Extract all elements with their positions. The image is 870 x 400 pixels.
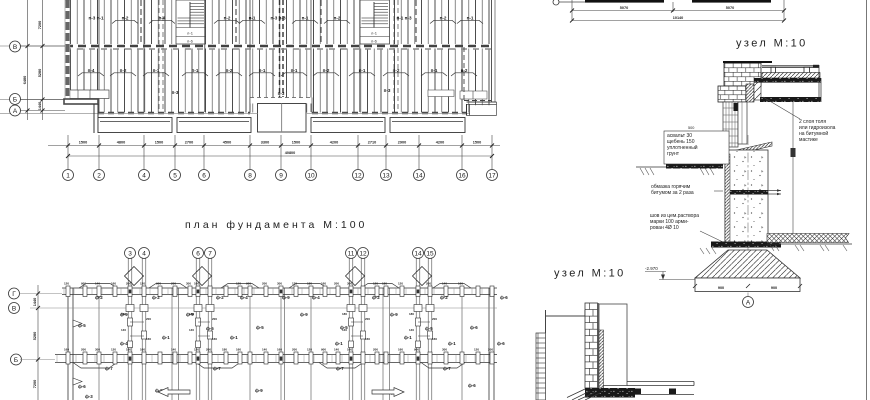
svg-text:п-2: п-2 xyxy=(224,16,231,21)
svg-text:300: 300 xyxy=(277,282,282,286)
svg-text:4200: 4200 xyxy=(330,141,338,145)
tie rod xyxy=(546,315,586,317)
В axis line xyxy=(30,307,497,309)
svg-text:200: 200 xyxy=(292,348,297,352)
svg-text:1500: 1500 xyxy=(79,141,87,145)
svg-text:900: 900 xyxy=(771,286,777,290)
svg-text:ф-6: ф-6 xyxy=(78,384,86,389)
axis vertical lines xyxy=(99,259,462,400)
svg-text:п-1: п-1 xyxy=(153,68,160,73)
svg-text:ф-7: ф-7 xyxy=(105,366,113,371)
svg-text:ф-3: ф-3 xyxy=(85,394,93,399)
bitumen band bottom xyxy=(585,388,635,398)
svg-text:160: 160 xyxy=(365,337,370,341)
svg-text:4200: 4200 xyxy=(436,141,444,145)
svg-text:180: 180 xyxy=(189,312,194,316)
dim line 1 xyxy=(48,145,500,147)
paired axis circles xyxy=(125,248,436,259)
svg-text:900: 900 xyxy=(321,348,326,352)
svg-text:120: 120 xyxy=(307,348,312,352)
bottom joint band xyxy=(711,242,781,248)
svg-text:5070: 5070 xyxy=(726,6,734,10)
svg-text:180: 180 xyxy=(382,282,387,286)
svg-text:7200: 7200 xyxy=(33,380,37,388)
svg-text:160: 160 xyxy=(236,348,241,352)
svg-text:7: 7 xyxy=(208,251,212,258)
svg-text:п-2: п-2 xyxy=(226,68,233,73)
svg-text:14: 14 xyxy=(415,173,423,180)
svg-text:160: 160 xyxy=(458,282,463,286)
white cutout below right step xyxy=(471,105,497,133)
svg-text:180: 180 xyxy=(222,348,227,352)
svg-text:1500: 1500 xyxy=(155,141,163,145)
hatch strip xyxy=(599,330,604,389)
svg-text:п-2: п-2 xyxy=(122,16,129,21)
dimension block bottom of floor plan xyxy=(48,135,500,170)
svg-text:ф-7: ф-7 xyxy=(443,366,451,371)
Б axis light stub + B axis stub xyxy=(0,99,66,101)
central porch block xyxy=(258,104,307,133)
white stairwell 2 xyxy=(360,0,390,44)
svg-text:900: 900 xyxy=(718,286,724,290)
right outer boundary xyxy=(491,0,493,102)
svg-text:п-1: п-1 xyxy=(359,68,366,73)
axis circle A xyxy=(743,297,754,308)
center seam dashed dark pair xyxy=(279,0,281,97)
svg-text:200: 200 xyxy=(171,282,176,286)
porch 1 xyxy=(98,118,172,133)
Б band xyxy=(55,354,497,356)
svg-text:11: 11 xyxy=(348,251,355,258)
slope hatch xyxy=(567,389,600,400)
oblique ticks dim line1 xyxy=(66,144,494,159)
svg-text:ф-9: ф-9 xyxy=(300,312,308,317)
thick left outer wall xyxy=(65,0,70,104)
svg-text:120: 120 xyxy=(194,348,199,352)
svg-text:140: 140 xyxy=(409,328,414,332)
chamfer trapezoids on bands xyxy=(73,284,471,369)
svg-text:ф-6: ф-6 xyxy=(468,383,476,388)
svg-text:180: 180 xyxy=(409,312,414,316)
svg-text:п-2: п-2 xyxy=(120,68,127,73)
right wall vertical band xyxy=(488,288,490,400)
svg-text:180: 180 xyxy=(126,348,131,352)
svg-text:3: 3 xyxy=(128,251,132,258)
svg-text:200: 200 xyxy=(426,282,431,286)
svg-text:ф-1: ф-1 xyxy=(404,335,412,340)
svg-text:15: 15 xyxy=(426,251,434,258)
svg-text:300: 300 xyxy=(186,282,191,286)
svg-text:ф-5: ф-5 xyxy=(206,326,214,331)
svg-text:900: 900 xyxy=(81,282,86,286)
svg-text:ф-4: ф-4 xyxy=(312,295,320,300)
svg-text:3300: 3300 xyxy=(261,141,269,145)
concrete pier xyxy=(725,150,768,243)
svg-text:8: 8 xyxy=(248,173,252,180)
svg-text:2: 2 xyxy=(97,173,101,180)
axis circles row xyxy=(63,170,498,181)
slab right xyxy=(627,381,694,383)
joint band middle xyxy=(730,190,768,195)
dim numbers row xyxy=(79,141,481,156)
axis letter circles xyxy=(10,41,21,116)
vertical dim line right of pier xyxy=(792,102,794,243)
hatched slab band middle rooms xyxy=(70,49,491,113)
svg-text:п-1: п-1 xyxy=(259,68,266,73)
section cut arrows bottom xyxy=(158,388,190,397)
footing trapezoid xyxy=(695,250,800,278)
svg-text:5280: 5280 xyxy=(38,69,42,77)
svg-text:180: 180 xyxy=(307,282,312,286)
pads on slab xyxy=(771,67,776,73)
svg-text:9: 9 xyxy=(279,173,283,180)
svg-text:6: 6 xyxy=(202,173,206,180)
svg-text:13: 13 xyxy=(382,173,390,180)
svg-text:ф-5: ф-5 xyxy=(78,323,86,328)
svg-text:1: 1 xyxy=(66,173,70,180)
svg-text:200: 200 xyxy=(432,317,437,321)
svg-text:16: 16 xyxy=(458,173,466,180)
svg-text:120: 120 xyxy=(474,348,479,352)
svg-text:10140: 10140 xyxy=(673,16,684,20)
bottom-left wall step xyxy=(64,99,98,104)
svg-text:ф-6: ф-6 xyxy=(500,295,508,300)
svg-text:В: В xyxy=(13,44,17,51)
svg-text:мастике: мастике xyxy=(799,137,818,143)
svg-text:2700: 2700 xyxy=(185,141,193,145)
svg-text:6: 6 xyxy=(196,251,200,258)
white stairwell 1 xyxy=(176,0,206,44)
dim line 2 total xyxy=(68,155,492,157)
svg-text:л-1: л-1 xyxy=(187,31,194,36)
foundation axis letter circles xyxy=(9,288,22,365)
svg-text:200: 200 xyxy=(212,317,217,321)
svg-text:битумом за 2 раза: битумом за 2 раза xyxy=(651,190,694,196)
slab end verticals xyxy=(818,65,820,102)
svg-text:900: 900 xyxy=(246,282,251,286)
svg-text:ф-9: ф-9 xyxy=(255,388,263,393)
svg-text:п-1 п-3: п-1 п-3 xyxy=(397,16,412,21)
svg-text:140: 140 xyxy=(342,328,347,332)
slab on grade right xyxy=(767,234,849,243)
svg-text:5: 5 xyxy=(173,173,177,180)
svg-text:п-6: п-6 xyxy=(187,39,193,44)
svg-text:120: 120 xyxy=(373,282,378,286)
svg-text:900: 900 xyxy=(156,282,161,286)
svg-text:140: 140 xyxy=(95,282,100,286)
svg-text:140: 140 xyxy=(442,282,447,286)
svg-text:40800: 40800 xyxy=(285,151,296,155)
svg-text:160: 160 xyxy=(277,348,282,352)
text обмазка xyxy=(651,184,694,196)
flag marks left wall xyxy=(73,320,82,327)
pad rects on bands xyxy=(66,286,494,364)
svg-text:В: В xyxy=(12,306,16,313)
porch 2 xyxy=(177,118,251,133)
bevel top of foundation xyxy=(723,142,772,157)
svg-text:уплотненный: уплотненный xyxy=(667,144,698,151)
porch 4 xyxy=(390,118,465,133)
bottom dashed edge runs xyxy=(98,112,250,114)
black band 2 xyxy=(760,97,821,102)
A axis light line xyxy=(0,113,258,115)
svg-text:ф-4: ф-4 xyxy=(240,295,248,300)
svg-text:4: 4 xyxy=(142,173,146,180)
svg-text:17: 17 xyxy=(488,173,496,180)
extension lines xyxy=(68,135,492,170)
svg-text:160: 160 xyxy=(194,282,199,286)
svg-text:160: 160 xyxy=(347,348,352,352)
svg-text:ф-2: ф-2 xyxy=(152,295,160,300)
white vestibule center xyxy=(250,98,312,104)
svg-text:п-2: п-2 xyxy=(323,68,330,73)
svg-text:500: 500 xyxy=(688,126,694,130)
right border line xyxy=(866,0,868,400)
brick column xyxy=(585,303,598,388)
svg-text:160: 160 xyxy=(321,282,326,286)
ladder strip xyxy=(536,333,546,400)
svg-text:140: 140 xyxy=(171,348,176,352)
svg-text:п-1: п-1 xyxy=(467,16,474,21)
svg-text:грунт: грунт xyxy=(667,151,680,157)
svg-text:ф-2: ф-2 xyxy=(440,295,448,300)
white cutout below left wall step xyxy=(60,105,98,119)
svg-text:900: 900 xyxy=(414,348,419,352)
svg-text:п-1: п-1 xyxy=(249,16,256,21)
svg-text:ф-1: ф-1 xyxy=(230,335,238,340)
svg-text:7200: 7200 xyxy=(38,21,42,29)
svg-text:л-1: л-1 xyxy=(371,31,378,36)
svg-text:план фундамента М:100: план фундамента М:100 xyxy=(185,219,367,231)
svg-text:10: 10 xyxy=(307,173,315,180)
svg-text:п-4: п-4 xyxy=(159,16,166,21)
room labels with span brackets xyxy=(78,16,483,97)
svg-text:узел М:10: узел М:10 xyxy=(736,38,808,50)
svg-text:300: 300 xyxy=(442,348,447,352)
svg-text:160: 160 xyxy=(111,282,116,286)
top band Г axis xyxy=(62,287,497,289)
svg-text:120: 120 xyxy=(292,282,297,286)
svg-text:140: 140 xyxy=(189,328,194,332)
svg-text:200: 200 xyxy=(262,282,267,286)
svg-text:Г: Г xyxy=(12,291,16,298)
svg-text:п-2: п-2 xyxy=(393,68,400,73)
svg-text:п-2: п-2 xyxy=(334,16,341,21)
svg-text:5280: 5280 xyxy=(33,332,37,340)
svg-text:ф-6: ф-6 xyxy=(470,325,478,330)
svg-text:п-6: п-6 xyxy=(371,39,377,44)
svg-text:рован 4Ø 10: рован 4Ø 10 xyxy=(650,225,679,231)
svg-text:1440: 1440 xyxy=(33,298,37,306)
foundation left dim line xyxy=(37,285,39,400)
ground line left of pier xyxy=(636,166,723,168)
svg-text:А: А xyxy=(13,108,18,115)
svg-text:5070: 5070 xyxy=(620,6,628,10)
svg-text:-2.970: -2.970 xyxy=(645,266,658,271)
svg-text:п-1: п-1 xyxy=(291,68,298,73)
svg-text:п-1: п-1 xyxy=(431,68,438,73)
svg-text:200: 200 xyxy=(81,348,86,352)
transverse axis walls in plan xyxy=(99,0,462,112)
tiny dim numbers xyxy=(64,282,493,352)
text шов xyxy=(650,213,699,231)
pads along paired verticals xyxy=(128,318,433,348)
svg-text:120: 120 xyxy=(140,282,145,286)
svg-text:ф-2: ф-2 xyxy=(216,295,224,300)
svg-text:300: 300 xyxy=(95,348,100,352)
pads on В axis xyxy=(126,305,434,312)
svg-text:4800: 4800 xyxy=(117,141,125,145)
svg-text:п-3 п-1: п-3 п-1 xyxy=(89,16,104,21)
svg-text:ф-9: ф-9 xyxy=(282,295,290,300)
svg-text:ф-5: ф-5 xyxy=(256,325,264,330)
svg-text:узел М:10: узел М:10 xyxy=(554,268,626,280)
svg-text:12: 12 xyxy=(359,251,367,258)
svg-text:200: 200 xyxy=(488,348,493,352)
svg-text:п-1: п-1 xyxy=(302,16,309,21)
svg-text:160: 160 xyxy=(398,348,403,352)
hatched slab band upper rooms xyxy=(70,0,491,44)
svg-text:160: 160 xyxy=(432,337,437,341)
panel xyxy=(599,304,627,386)
svg-text:1500: 1500 xyxy=(473,141,481,145)
black band 1 xyxy=(754,78,821,83)
svg-text:120: 120 xyxy=(236,282,241,286)
svg-text:300: 300 xyxy=(347,282,352,286)
svg-text:140: 140 xyxy=(334,348,339,352)
svg-text:160: 160 xyxy=(140,348,145,352)
svg-text:п-4: п-4 xyxy=(88,68,95,73)
svg-text:Б: Б xyxy=(14,357,18,364)
svg-text:200: 200 xyxy=(334,282,339,286)
svg-text:200: 200 xyxy=(146,317,151,321)
asphalt dark band xyxy=(666,163,723,169)
svg-text:Б: Б xyxy=(13,97,17,104)
svg-text:4: 4 xyxy=(142,251,146,258)
svg-text:ф-6: ф-6 xyxy=(497,341,505,346)
diamonds on paired axes xyxy=(125,267,432,286)
svg-text:ф-2: ф-2 xyxy=(372,295,380,300)
svg-text:ф-1: ф-1 xyxy=(448,341,456,346)
wall band B axis (dashed thick) xyxy=(65,45,491,47)
asphalt text box xyxy=(664,131,729,164)
svg-text:на битумной: на битумной xyxy=(799,130,828,137)
junction hatched block xyxy=(746,84,754,102)
leader 2 слоя толя xyxy=(763,97,800,119)
svg-text:п-1: п-1 xyxy=(192,68,199,73)
svg-text:200: 200 xyxy=(126,282,131,286)
svg-text:ф-7: ф-7 xyxy=(213,366,221,371)
white boxes right side xyxy=(428,90,454,97)
svg-text:140: 140 xyxy=(262,348,267,352)
left wall vertical band xyxy=(67,288,69,400)
svg-text:140: 140 xyxy=(121,328,126,332)
svg-text:ф-2: ф-2 xyxy=(95,295,103,300)
svg-text:п-2: п-2 xyxy=(440,16,447,21)
brick pier xyxy=(724,62,761,86)
top slab xyxy=(762,65,819,67)
svg-text:200: 200 xyxy=(206,348,211,352)
wall strip below floor xyxy=(723,102,747,147)
svg-text:160: 160 xyxy=(146,337,151,341)
svg-text:180: 180 xyxy=(342,312,347,316)
svg-text:160: 160 xyxy=(212,337,217,341)
svg-text:1440: 1440 xyxy=(38,102,42,110)
svg-text:п-3: п-3 xyxy=(172,90,179,95)
svg-text:ф-9: ф-9 xyxy=(390,312,398,317)
svg-text:6480: 6480 xyxy=(23,76,27,84)
svg-text:200: 200 xyxy=(365,317,370,321)
porch 3 xyxy=(311,118,385,133)
ф- labels xyxy=(78,295,508,399)
svg-text:ф-7: ф-7 xyxy=(336,366,344,371)
svg-text:п-3 п-3: п-3 п-3 xyxy=(271,16,286,21)
hatch band xyxy=(762,73,820,79)
unit seam dashed pair 2 xyxy=(393,0,395,112)
svg-text:п-2: п-2 xyxy=(461,68,468,73)
svg-text:п-3: п-3 xyxy=(278,91,285,96)
svg-text:14: 14 xyxy=(414,251,422,258)
svg-text:ф-4: ф-4 xyxy=(120,341,128,346)
svg-text:А: А xyxy=(746,300,751,307)
white box bottom-left rooms xyxy=(66,90,109,99)
svg-text:2900: 2900 xyxy=(398,141,406,145)
svg-text:4500: 4500 xyxy=(223,141,231,145)
svg-text:1500: 1500 xyxy=(292,141,300,145)
svg-text:ф-5: ф-5 xyxy=(425,326,433,331)
svg-text:120: 120 xyxy=(398,282,403,286)
svg-text:200: 200 xyxy=(373,348,378,352)
svg-text:180: 180 xyxy=(121,312,126,316)
svg-text:120: 120 xyxy=(111,348,116,352)
svg-text:120: 120 xyxy=(64,282,69,286)
svg-text:п-3: п-3 xyxy=(384,88,391,93)
svg-text:ф-1: ф-1 xyxy=(335,341,343,346)
left dimension column floor plan xyxy=(20,0,65,120)
svg-text:160: 160 xyxy=(64,348,69,352)
svg-text:12: 12 xyxy=(354,173,362,180)
unit seam dashed pair 1 xyxy=(158,0,160,112)
svg-text:ф-1: ф-1 xyxy=(162,335,170,340)
svg-text:2710: 2710 xyxy=(368,141,376,145)
heavy dashed walls upper band xyxy=(140,0,142,44)
